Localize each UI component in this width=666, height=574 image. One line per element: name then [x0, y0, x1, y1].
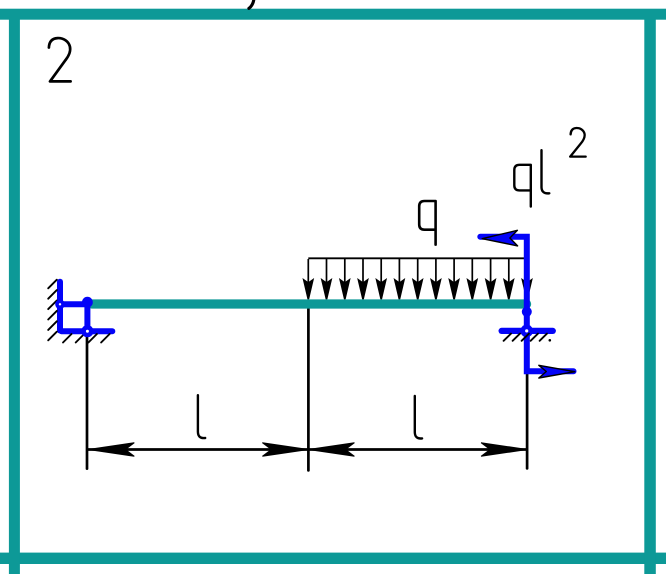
pin at wall: [55, 300, 65, 310]
hinge ball at beam left end: [82, 297, 93, 308]
dimension line: [88, 448, 527, 451]
label l (right span): [415, 396, 422, 439]
right support pin: [520, 325, 533, 338]
extension line right: [526, 338, 529, 468]
label q (distributed load): [419, 201, 435, 245]
left support base bar: [62, 328, 113, 334]
distributed load line: [308, 257, 524, 259]
pin at left base: [81, 325, 93, 337]
problem number 2: [49, 38, 71, 81]
distributed load arrows: [304, 259, 532, 299]
right pin hole: [525, 329, 528, 332]
dimension arrow middle pointing left: [308, 443, 354, 457]
moment arrow bottom (right): [539, 365, 575, 378]
left support wall bar: [57, 282, 63, 331]
dimension arrow middle pointing right: [262, 443, 308, 457]
right support bar: [502, 328, 553, 334]
label ql squared (moment value): [514, 128, 585, 207]
moment arrow top (left): [482, 230, 517, 246]
left support horizontal link: [60, 301, 87, 307]
label l (left span): [198, 395, 205, 438]
extension line middle: [307, 309, 310, 470]
right hatching dot: [549, 339, 552, 342]
left base hatching: [63, 334, 110, 343]
right base hatching: [504, 334, 547, 341]
dimension arrow right end: [481, 443, 527, 457]
left wall hatching: [48, 280, 57, 341]
text fragment (comma) at top edge: [249, 0, 254, 8]
hinge ball at beam right end: [522, 307, 532, 317]
left support vertical link: [84, 302, 90, 331]
beam: [92, 299, 526, 308]
extension line left: [86, 335, 89, 469]
dimension arrow left end: [88, 443, 134, 457]
moment arm (couple) polyline: [480, 237, 573, 371]
